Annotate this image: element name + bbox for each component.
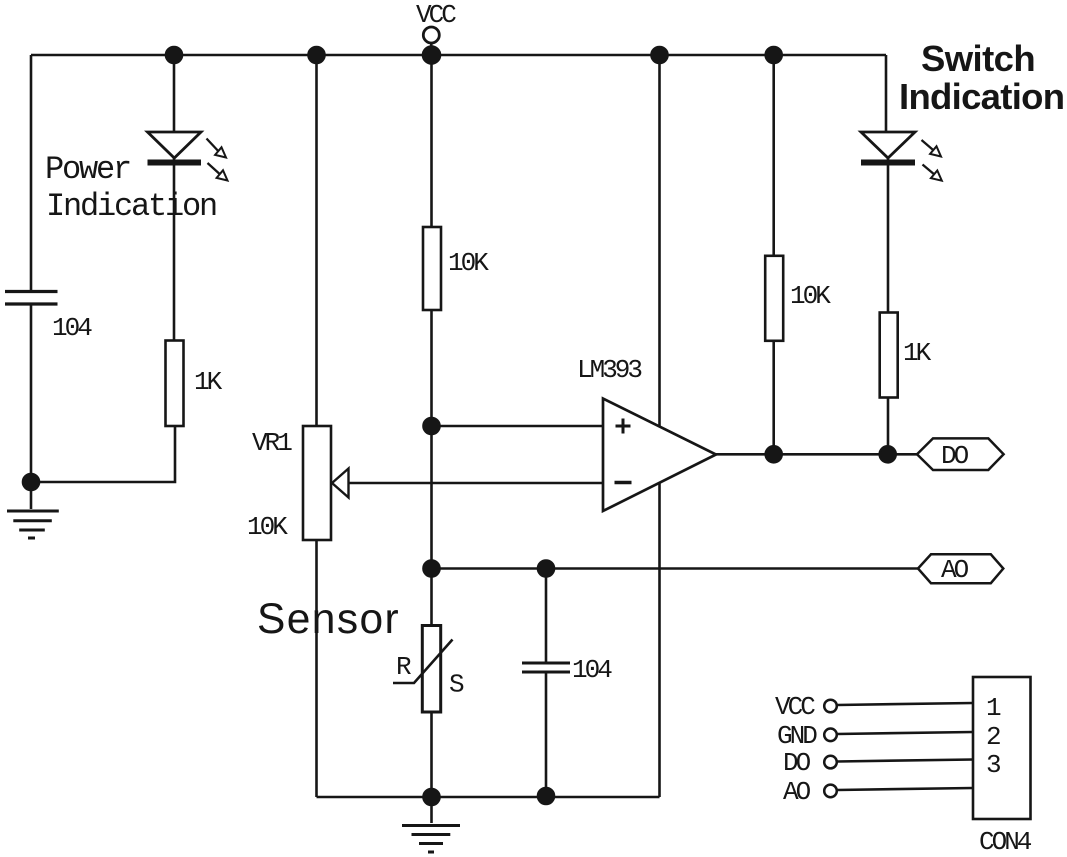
wire cap2 top: [545, 569, 548, 664]
svg-text:AO: AO: [941, 555, 969, 585]
power symbol VCC: [423, 27, 439, 50]
svg-text:CON4: CON4: [979, 827, 1032, 857]
node DO R3: [766, 446, 782, 462]
svg-text:S: S: [449, 670, 464, 700]
LED D2 arrows: [922, 140, 942, 181]
svg-text:DO: DO: [941, 441, 969, 471]
svg-text:VR1: VR1: [252, 428, 292, 458]
wire R3 top: [772, 55, 775, 256]
svg-text:Power: Power: [45, 151, 130, 188]
svg-text:10K: 10K: [247, 512, 288, 542]
svg-text:104: 104: [572, 655, 612, 685]
svg-text:10K: 10K: [448, 248, 489, 278]
svg-text:10K: 10K: [790, 281, 831, 311]
wire VCC top rail: [31, 54, 886, 57]
ground bottom: [402, 797, 460, 852]
wire DO output: [716, 453, 917, 456]
wire pin3: [837, 760, 973, 762]
svg-text:DO: DO: [783, 748, 811, 778]
wire plus input: [432, 425, 604, 428]
node top rail pot: [309, 47, 325, 63]
node cap2 top junction: [538, 561, 554, 577]
wire left branch lower: [30, 304, 33, 482]
ground left: [7, 482, 59, 538]
svg-text:Switch: Switch: [921, 38, 1035, 79]
wire center to AO node: [430, 426, 433, 569]
wire R3 to DO: [772, 341, 775, 455]
wire left branch down: [30, 55, 33, 291]
svg-text:AO: AO: [783, 777, 811, 807]
svg-text:Sensor: Sensor: [257, 596, 400, 643]
wire LED1 to R1: [173, 158, 176, 341]
svg-text:Indication: Indication: [46, 188, 216, 225]
node plus input: [424, 418, 440, 434]
node AO junction: [424, 561, 440, 577]
node bottom thermistor: [424, 789, 440, 805]
wire feedback vertical: [658, 55, 661, 797]
node top rail LED1: [166, 47, 182, 63]
pin DO circle: [824, 756, 837, 769]
wire center down to R2: [430, 55, 433, 227]
resistor R2 10K: [423, 227, 441, 310]
node DO R4: [880, 446, 896, 462]
capacitor C1 104: [5, 292, 58, 305]
thermistor RS diagonal: [393, 640, 453, 684]
svg-text:GND: GND: [777, 721, 817, 751]
port AO flag: [918, 554, 1003, 583]
wire AO line: [432, 567, 919, 570]
pin VCC circle: [824, 700, 837, 713]
node top rail center: [423, 47, 440, 64]
wire R2 to plus node: [430, 310, 433, 426]
resistor R4 1K: [880, 313, 898, 398]
wire pin4: [837, 788, 973, 790]
wire wiper to minus input: [349, 482, 604, 485]
port DO flag: [917, 438, 1004, 470]
wire ground link: [31, 426, 175, 482]
wire LED2 to R4: [887, 158, 890, 313]
svg-text:104: 104: [52, 313, 92, 343]
potentiometer VR1 body: [303, 426, 331, 540]
svg-text:3: 3: [986, 750, 1000, 780]
svg-text:2: 2: [986, 722, 1000, 752]
op-amp U1 LM393: [603, 399, 716, 512]
op-amp minus pin: [615, 481, 632, 484]
LED D1 power indication: [148, 132, 202, 163]
capacitor C2 104: [522, 663, 570, 672]
node left ground junction: [23, 474, 39, 490]
wire pot top: [315, 55, 318, 426]
wire R4 to DO: [887, 398, 890, 455]
wire pin1: [837, 703, 973, 705]
svg-text:1K: 1K: [903, 338, 932, 368]
potentiometer VR1 wiper arrow: [332, 469, 349, 498]
svg-text:R: R: [396, 652, 411, 682]
wire cap2 bottom: [545, 672, 548, 796]
svg-text:VCC: VCC: [416, 0, 456, 30]
LED D1 arrows: [207, 139, 228, 181]
node bottom cap2: [538, 788, 554, 804]
LED D2 switch indication: [861, 132, 915, 163]
wire pot bottom: [315, 540, 318, 797]
connector CON4 box: [973, 677, 1031, 819]
wire LED1 top: [173, 55, 176, 132]
svg-text:VCC: VCC: [775, 692, 815, 722]
wire center to thermistor: [430, 569, 433, 626]
svg-text:1K: 1K: [194, 367, 223, 397]
svg-text:LM393: LM393: [577, 355, 641, 385]
node top rail feedback: [652, 47, 668, 63]
wire pin2: [837, 732, 973, 734]
wire bottom rail: [317, 796, 660, 799]
wire thermistor bottom: [430, 712, 433, 797]
pin GND circle: [824, 729, 837, 742]
resistor R1 1K: [166, 341, 184, 427]
op-amp plus pin: [616, 419, 631, 434]
resistor R3 10K: [765, 256, 783, 341]
svg-text:Indication: Indication: [899, 76, 1064, 117]
node top rail R3: [766, 47, 782, 63]
pin AO circle: [824, 785, 837, 798]
wire top right corner: [885, 55, 888, 132]
thermistor RS body: [422, 626, 440, 713]
